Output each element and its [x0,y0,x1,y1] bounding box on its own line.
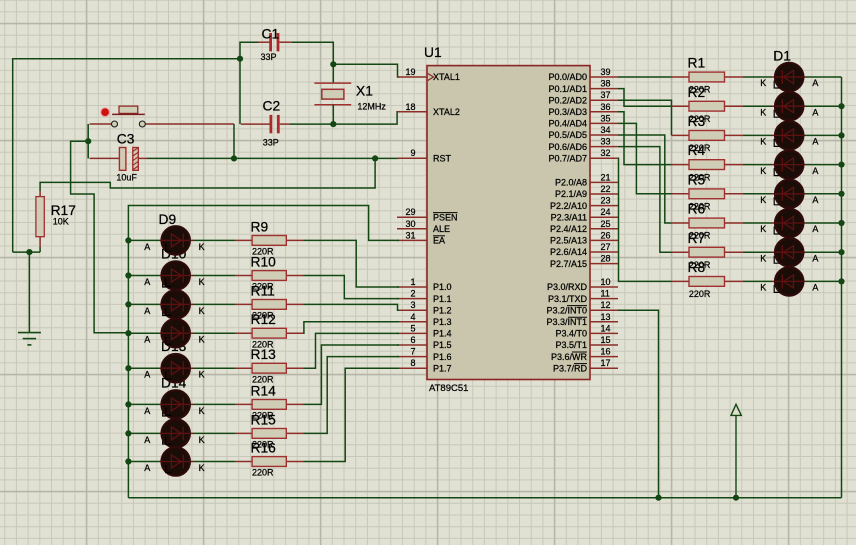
svg-text:21: 21 [601,172,611,182]
svg-text:R7: R7 [688,231,706,246]
svg-text:39: 39 [601,67,611,77]
svg-text:P1.4: P1.4 [433,329,452,339]
svg-text:7: 7 [410,347,415,357]
capacitor C2 [270,115,280,133]
junction button/C3 left node [85,138,91,144]
svg-text:P1.3: P1.3 [433,317,452,327]
svg-text:P0.2/AD2: P0.2/AD2 [548,95,587,105]
svg-text:30: 30 [405,219,415,229]
svg-text:P3.5/T1: P3.5/T1 [555,340,587,350]
svg-text:33: 33 [601,137,611,147]
wire R16 to P1.7 [304,368,400,461]
resistor R17 [39,191,41,197]
op-amp U1 body (AT89C51 MCU) [427,66,590,380]
junction VCC bus [838,220,844,226]
wire R4 to D4 [743,164,772,166]
svg-text:K: K [760,166,766,176]
junction VCC bus [838,191,844,197]
wire C2 to pin 18 [290,112,399,124]
svg-text:P0.0/AD0: P0.0/AD0 [548,72,587,82]
svg-text:RST: RST [433,153,452,163]
svg-text:EA: EA [433,236,445,246]
svg-text:P3.1/TXD: P3.1/TXD [548,294,588,304]
wire D15 to R15 [193,432,235,434]
wire C2 right lead [280,123,290,125]
svg-text:K: K [760,224,766,234]
svg-text:P2.4/A12: P2.4/A12 [550,224,587,234]
svg-text:K: K [199,406,205,416]
wire X1 to XTAL2 node [332,105,334,124]
svg-text:X1: X1 [356,84,373,99]
svg-text:R6: R6 [688,202,706,217]
crystal X1 [314,83,351,105]
svg-text:11: 11 [601,289,610,299]
svg-text:R14: R14 [251,383,277,398]
junction GND/C1/C2 node [237,56,243,62]
LED D15 [159,419,193,447]
junction LED bus [125,330,131,336]
svg-text:P3.2/INT0: P3.2/INT0 [546,305,587,315]
svg-text:22: 22 [601,184,611,194]
junction power arrow [733,495,739,501]
svg-text:26: 26 [601,230,611,240]
wire D16 to R16 [193,461,235,463]
wire D1 anode to VCC bus [806,76,842,78]
wire D12 to R12 [193,332,235,334]
svg-text:K: K [199,370,205,380]
junction XTAL2 node [330,121,336,127]
LED D2 [772,92,806,120]
junction VCC bus [838,103,844,109]
LED D9 [159,226,193,254]
svg-text:P0.4/AD4: P0.4/AD4 [548,119,587,129]
wire P0.5 to R6 [618,135,672,223]
junction LED bus [125,365,131,371]
wire D5 anode to VCC bus [806,193,842,195]
svg-text:15: 15 [601,335,611,345]
svg-text:220R: 220R [689,289,711,299]
wire D9 to R9 [193,239,235,241]
svg-text:U1: U1 [424,45,442,60]
svg-text:R16: R16 [251,441,277,456]
svg-text:24: 24 [601,207,611,217]
resistor R12 [235,328,304,338]
wire R5 to D5 [743,193,772,195]
wire R9 to P1.0 [304,240,400,287]
wire XTAL1 node to pin 19 [333,64,399,77]
svg-text:C1: C1 [262,27,280,42]
svg-text:33P: 33P [263,138,279,148]
resistor R4 [672,160,744,170]
svg-text:R9: R9 [251,219,269,234]
svg-text:10: 10 [601,277,611,287]
svg-text:A: A [144,242,150,252]
wire C2 left lead [241,123,271,125]
svg-text:36: 36 [601,102,611,112]
wire LED bus to D14 [128,403,159,405]
svg-text:P2.1/A9: P2.1/A9 [555,189,587,199]
svg-text:P3.3/INT1: P3.3/INT1 [546,317,587,327]
wire D2 anode to VCC bus [806,105,842,107]
junction LED bus [125,237,131,243]
wire LED bus to D13 [128,367,159,369]
svg-text:K: K [760,137,766,147]
svg-text:12MHz: 12MHz [357,102,386,112]
svg-text:6: 6 [410,335,415,345]
svg-text:XTAL1: XTAL1 [433,72,460,82]
wire LED bus to D15 [128,432,159,434]
wire D3 anode to VCC bus [806,134,842,136]
wire LED bus to D12 [128,332,159,334]
svg-text:31: 31 [405,230,415,240]
resistor R6 [672,218,744,228]
svg-text:2: 2 [410,289,415,299]
wire R12 to P1.3 [304,322,400,333]
wire D7 anode to VCC bus [806,251,842,253]
wire C1 right lead [279,41,292,43]
svg-text:K: K [760,253,766,263]
wire C1 left lead [258,41,270,43]
svg-text:A: A [812,166,818,176]
svg-text:16: 16 [601,347,611,357]
wire EA to VCC bus [128,206,399,498]
LED D13 [159,354,193,382]
svg-text:A: A [144,406,150,416]
wire D13 to R13 [193,367,235,369]
wire R15 to P1.6 [304,357,400,434]
svg-text:K: K [199,435,205,445]
svg-text:P2.7/A15: P2.7/A15 [550,259,587,269]
wire VCC staircase to LED bus [71,141,129,333]
svg-text:XTAL2: XTAL2 [433,107,460,117]
svg-text:K: K [199,306,205,316]
junction LED bus [125,301,131,307]
svg-text:R13: R13 [251,347,277,362]
svg-text:K: K [760,107,766,117]
resistor R9 [235,236,304,246]
svg-text:23: 23 [601,196,611,206]
svg-text:R4: R4 [688,143,706,158]
svg-text:P0.3/AD3: P0.3/AD3 [548,107,587,117]
junction VCC bus [838,249,844,255]
junction XTAL1 node [330,61,336,67]
svg-text:P1.7: P1.7 [433,363,452,373]
svg-text:18: 18 [405,102,415,112]
svg-text:R5: R5 [688,172,706,187]
svg-text:A: A [812,195,818,205]
svg-text:P0.5/AD5: P0.5/AD5 [548,130,587,140]
wire LED bus to D10 [128,275,159,277]
resistor R10 [235,271,304,281]
wire R2 to D2 [743,105,772,107]
svg-text:R8: R8 [688,260,706,275]
svg-text:P2.3/A11: P2.3/A11 [551,212,587,222]
wire R1 to D1 [743,76,772,78]
svg-text:A: A [144,335,150,345]
junction RST/button node [231,155,237,161]
svg-text:25: 25 [601,219,611,229]
junction LED bus [125,401,131,407]
svg-text:C2: C2 [263,99,281,114]
wire D10 to R10 [193,275,235,277]
pin stubs left [397,77,427,368]
resistor R3 [672,131,744,141]
junction GND tap [26,249,32,255]
wire P0.1 to R2 [618,89,672,107]
wire R11 to P1.2 [304,304,400,310]
LED D8 [772,267,806,295]
wire R7 to D7 [743,251,772,253]
resistor R14 [235,400,304,410]
svg-text:AT89C51: AT89C51 [429,383,468,394]
wire GND to C2 [239,59,241,124]
svg-text:P1.5: P1.5 [433,340,452,350]
wire R10 to P1.1 [304,276,400,299]
svg-text:P2.6/A14: P2.6/A14 [550,247,587,257]
svg-text:R2: R2 [688,85,706,100]
svg-text:35: 35 [601,113,611,123]
junction RST/R17 node [372,155,378,161]
svg-text:9: 9 [410,148,415,158]
svg-text:A: A [812,137,818,147]
resistor R1 [672,72,744,82]
svg-text:28: 28 [601,254,611,264]
wire to ground symbol [28,252,30,333]
resistor R11 [235,300,304,310]
svg-text:P3.4/T0: P3.4/T0 [555,329,587,339]
resistor R16 [235,457,304,467]
junction LED bus [125,272,131,278]
svg-text:R12: R12 [251,312,276,327]
junction LED bus [125,430,131,436]
svg-text:K: K [760,78,766,88]
svg-text:P3.0/RXD: P3.0/RXD [547,282,588,292]
svg-text:13: 13 [601,312,611,322]
svg-text:K: K [760,283,766,293]
junction VCC bus [838,132,844,138]
wire LED bus to D16 [128,461,159,463]
svg-text:29: 29 [405,207,415,217]
svg-text:K: K [199,463,205,473]
svg-text:R11: R11 [251,283,275,298]
svg-text:P3.6/WR: P3.6/WR [551,352,588,362]
svg-text:C3: C3 [117,132,135,147]
clock input marker XTAL1 [428,74,434,81]
svg-text:P2.0/A8: P2.0/A8 [555,178,587,188]
junction VCC bus [838,278,844,284]
junction VCC bus [838,162,844,168]
svg-text:34: 34 [601,125,611,135]
svg-text:P2.2/A10: P2.2/A10 [550,201,587,211]
junction LED bus [125,458,131,464]
wire R3 to D3 [743,134,772,136]
wire button right to RST row [233,124,235,158]
LED D12 [159,319,193,347]
LED D3 [772,121,806,149]
resistor R5 [672,189,744,199]
svg-text:A: A [144,435,150,445]
svg-text:A: A [812,283,818,293]
wire P0.0 to R1 [618,76,672,78]
wire LED bus to D11 [128,303,159,305]
wire D11 to R11 [193,303,235,305]
wire P0.2 to R3 [618,100,672,135]
wire C3 left lead [90,157,120,159]
wire LED bus to D9 [128,239,159,241]
pushbutton reset [90,106,235,127]
svg-text:P0.1/AD1: P0.1/AD1 [548,84,587,94]
svg-text:A: A [812,107,818,117]
svg-text:P1.0: P1.0 [433,282,452,292]
resistor R8 [672,277,744,287]
LED D6 [772,209,806,237]
svg-text:A: A [812,78,818,88]
svg-text:D1: D1 [773,49,791,64]
wire GND to C1 [240,42,258,59]
svg-text:P3.7/RD: P3.7/RD [553,363,588,373]
svg-text:12: 12 [601,300,611,310]
wire P0.7 to R8 [618,158,672,281]
LED D4 [772,150,806,178]
LED D1 [772,63,806,91]
wire R13 to P1.4 [304,333,400,368]
power symbol (arrow up) [731,404,741,497]
svg-text:ALE: ALE [433,224,450,234]
capacitor C1 [269,33,279,51]
svg-text:27: 27 [601,242,611,252]
svg-text:1: 1 [410,277,415,287]
junction P3.2/VCC [655,495,661,501]
wire VCC bottom rail [128,497,841,499]
resistor R7 [672,247,744,257]
svg-text:A: A [144,463,150,473]
LED D16 [159,447,193,475]
wire P0.3 to R4 [618,112,672,165]
resistor R2 [672,101,744,111]
LED D7 [772,238,806,266]
wire P0.6 to R7 [618,147,672,253]
wire R8 to D8 [743,280,772,282]
wire RST to R17 staircase [40,158,375,191]
pin stubs right [590,77,618,368]
svg-text:14: 14 [601,323,611,333]
svg-text:220R: 220R [252,468,274,478]
svg-text:19: 19 [405,67,415,77]
wire VCC bus right [841,77,843,498]
svg-text:10K: 10K [53,216,69,226]
svg-text:P0.6/AD6: P0.6/AD6 [548,142,587,152]
svg-text:38: 38 [601,79,611,89]
svg-text:R15: R15 [251,412,277,427]
svg-text:K: K [199,277,205,287]
wire R17 bottom lead [39,237,41,247]
wire D8 anode to VCC bus [806,280,842,282]
svg-text:A: A [144,306,150,316]
LED D10 [159,261,193,289]
svg-text:A: A [812,253,818,263]
wire GND rail top [13,59,240,252]
svg-text:K: K [760,195,766,205]
wire D4 anode to VCC bus [806,164,842,166]
svg-text:33P: 33P [261,52,277,62]
wire R14 to P1.5 [304,345,400,404]
svg-text:A: A [144,370,150,380]
svg-text:P1.2: P1.2 [433,305,452,315]
resistor R13 [235,363,304,373]
wire C3 right to RST pin [147,157,399,159]
svg-text:A: A [144,277,150,287]
svg-text:32: 32 [601,148,611,158]
resistor R15 [235,429,304,439]
wire VCC to button/C3 left [87,124,89,158]
svg-text:R10: R10 [251,255,277,270]
svg-text:4: 4 [410,312,415,322]
wire C1 to XTAL1 node [292,42,333,64]
wire R6 to D6 [743,222,772,224]
LED D11 [159,290,193,318]
svg-text:K: K [199,242,205,252]
svg-text:PSEN: PSEN [433,212,458,222]
svg-text:8: 8 [410,358,415,368]
svg-text:17: 17 [601,358,611,368]
wire XTAL1 node to X1 [332,64,334,83]
wire P3.2 to VCC rail [618,310,659,498]
wire P0.4 to R5 [618,123,672,193]
svg-text:P2.5/A13: P2.5/A13 [550,236,587,246]
wire D14 to R14 [193,403,235,405]
wire D6 anode to VCC bus [806,222,842,224]
svg-text:10uF: 10uF [116,173,137,183]
svg-text:A: A [812,224,818,234]
svg-text:P1.6: P1.6 [433,352,452,362]
svg-text:R1: R1 [688,56,706,71]
svg-text:5: 5 [410,323,415,333]
ground [18,333,41,345]
LED D5 [772,180,806,208]
svg-text:R3: R3 [688,114,706,129]
wire GND to R17 bottom [13,251,40,253]
wire C3 right lead [138,157,147,159]
svg-text:37: 37 [601,90,611,100]
svg-text:D9: D9 [159,212,177,227]
LED D14 [159,390,193,418]
svg-text:3: 3 [410,300,415,310]
svg-text:P1.1: P1.1 [433,294,452,304]
svg-text:K: K [199,335,205,345]
svg-text:P0.7/AD7: P0.7/AD7 [548,153,587,163]
